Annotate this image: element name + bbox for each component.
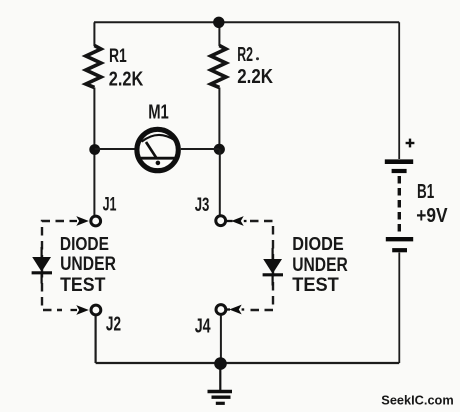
svg-text:2.2K: 2.2K	[109, 68, 144, 91]
node: junction dot on top bus	[213, 17, 224, 28]
arrow into J1	[70, 216, 89, 226]
resistor R1	[86, 46, 101, 88]
svg-text:UNDER: UNDER	[292, 255, 348, 276]
svg-text:DIODE: DIODE	[292, 233, 344, 254]
arrow into J2	[71, 305, 89, 315]
ground	[208, 364, 233, 404]
svg-text:J1: J1	[103, 194, 117, 216]
jack J2 open circle	[91, 305, 101, 315]
node: junction dot left at meter level	[89, 144, 100, 155]
dashed test loop right	[249, 221, 273, 310]
dashed test loop left	[42, 221, 64, 310]
svg-text:J4: J4	[195, 315, 211, 338]
diode under test right	[263, 248, 283, 286]
artifact dot after R2	[256, 57, 259, 60]
svg-text:B1: B1	[417, 180, 434, 203]
wire: left vertical from R1 down to J1	[93, 88, 95, 216]
wire: J2 down to bottom bus	[94, 316, 96, 363]
svg-text:2.2K: 2.2K	[237, 66, 273, 88]
meter M1 body	[137, 129, 178, 170]
svg-text:M1: M1	[148, 101, 169, 123]
wire: left vertical from top bus to R1	[93, 22, 95, 46]
wire: battery bottom to bottom bus	[398, 253, 400, 364]
jack J1 open circle	[91, 216, 101, 226]
node: junction dot right at meter level	[214, 144, 225, 155]
svg-text:TEST: TEST	[292, 275, 339, 296]
jack J4 open circle	[216, 305, 226, 315]
resistor R2	[211, 46, 226, 88]
wire: bottom horizontal bus	[96, 362, 400, 364]
wire: right vertical from top bus to battery	[398, 22, 400, 159]
svg-text:DIODE: DIODE	[60, 233, 109, 254]
wire: middle vertical from R2 to meter node	[218, 88, 220, 150]
svg-text:TEST: TEST	[60, 275, 106, 296]
svg-text:J3: J3	[195, 194, 210, 216]
svg-text:+9V: +9V	[416, 204, 448, 227]
wire: J4 down to bottom bus	[220, 316, 222, 364]
svg-text:R1: R1	[109, 45, 127, 67]
wire: middle vertical from meter node to J3	[219, 149, 221, 215]
svg-text:SeekIC.com: SeekIC.com	[381, 392, 453, 407]
svg-text:R2: R2	[237, 43, 253, 66]
battery B1	[385, 139, 415, 251]
wire: middle vertical from top bus to R2	[218, 22, 220, 46]
node: junction dot on bottom bus	[214, 357, 227, 370]
arrow into J4	[226, 305, 244, 315]
diode under test left	[32, 247, 52, 284]
wire: top horizontal bus	[94, 21, 399, 23]
svg-text:UNDER: UNDER	[60, 254, 116, 275]
wire: meter branch left	[95, 148, 136, 150]
svg-text:J2: J2	[106, 312, 121, 335]
wire: meter branch right	[181, 148, 220, 150]
arrow into J3	[227, 216, 247, 226]
jack J3 open circle	[216, 216, 226, 226]
